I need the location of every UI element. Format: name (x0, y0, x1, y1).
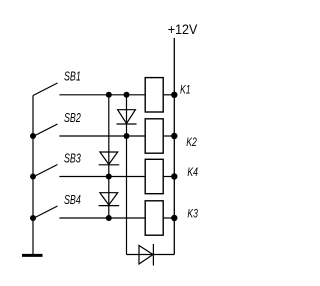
svg-text:SB2: SB2 (64, 110, 81, 125)
wire branch B vertical (SB1 through VD1 to bottom loop) (126, 95, 128, 255)
switch SB4 (33, 192, 81, 218)
wire branch A vertical (SB1 to SB4 through VD2 VD3) (108, 95, 110, 218)
wire K3 stub to rail (163, 217, 174, 219)
node row4-branchA junction (106, 215, 112, 221)
switch SB2 (33, 110, 81, 136)
relay K4 (145, 159, 198, 193)
relay K2 (145, 119, 197, 153)
diode VD3 (99, 193, 120, 206)
wire SB4 row horizontal (59, 217, 145, 219)
node row1-branchA junction (106, 92, 112, 98)
wire bottom loop horizontal (127, 254, 175, 256)
node bus-SB4 junction (30, 215, 36, 221)
relay K3 (145, 201, 198, 235)
wire SB2 row horizontal (59, 135, 145, 137)
diode VD1 (117, 110, 137, 124)
svg-text:+12V: +12V (168, 21, 198, 37)
switch SB1 (33, 68, 81, 95)
switch SB3 (33, 151, 81, 177)
wire K2 stub to rail (163, 135, 174, 137)
node rail-K1 junction (171, 92, 177, 98)
node bus-SB3 junction (30, 174, 36, 180)
svg-text:K1: K1 (180, 83, 191, 97)
wire K4 stub to rail (163, 176, 174, 178)
node row3-branchA junction (106, 174, 112, 180)
node rail-K2 junction (171, 133, 177, 139)
wire +12V rail vertical (173, 38, 175, 255)
svg-text:K2: K2 (186, 135, 197, 149)
diode VD2 (99, 152, 120, 165)
svg-text:SB1: SB1 (64, 68, 81, 83)
wire SB3 row horizontal (59, 176, 145, 178)
svg-text:K3: K3 (187, 206, 198, 220)
wire K1 stub to rail (163, 94, 174, 96)
relay K1 (145, 78, 190, 112)
wire SB1 row horizontal (59, 94, 145, 96)
node rail-K4 junction (171, 173, 177, 179)
node bus-SB2 junction (30, 133, 36, 139)
svg-text:SB4: SB4 (64, 192, 81, 207)
svg-text:SB3: SB3 (64, 151, 81, 166)
svg-text:K4: K4 (187, 165, 198, 179)
ground (22, 254, 43, 257)
node row1-branchB junction (124, 92, 130, 98)
node row2-branchB junction (124, 133, 130, 139)
diode VD4 (bottom, pointing right) (139, 244, 153, 266)
node rail-K3 junction (171, 215, 177, 221)
wire left bus vertical (32, 96, 34, 255)
